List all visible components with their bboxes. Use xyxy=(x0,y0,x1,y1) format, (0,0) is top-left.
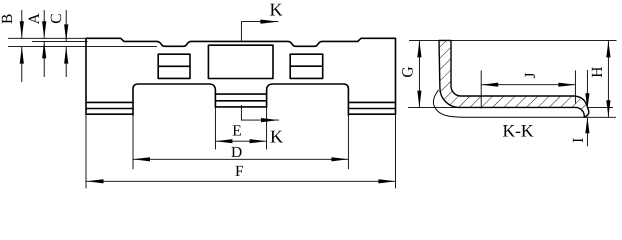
ext line across bottom of sheet xyxy=(408,107,613,109)
ext lines E (feet inner) xyxy=(215,107,266,150)
bottom ext line (foot bottom level) xyxy=(584,116,616,118)
top ext line xyxy=(409,39,617,41)
svg-text:I: I xyxy=(570,138,587,143)
ext line step y=41.4 xyxy=(32,40,88,42)
main view labels xyxy=(0,12,244,179)
C arrows xyxy=(64,24,68,41)
svg-text:G: G xyxy=(400,66,417,77)
dim J line xyxy=(481,84,575,86)
section line K top xyxy=(241,22,278,42)
arrows of main view xyxy=(20,20,396,184)
left window xyxy=(158,54,190,78)
J arrows xyxy=(481,83,498,87)
dim B line xyxy=(21,10,23,82)
ext line inner y=46.6 xyxy=(8,46,157,48)
dim F line xyxy=(87,180,396,182)
ext lines D (feet outer) xyxy=(133,115,348,169)
F arrows xyxy=(87,179,104,183)
svg-text:B: B xyxy=(0,14,16,24)
G arrows xyxy=(417,40,421,57)
right window xyxy=(290,54,323,78)
svg-text:A: A xyxy=(26,12,43,24)
right flange lines xyxy=(348,102,395,114)
center box between feet with ladder lines xyxy=(215,94,266,107)
dim G line xyxy=(418,40,420,107)
dim E line xyxy=(215,140,266,142)
D arrows xyxy=(133,157,150,161)
dim C line xyxy=(65,10,67,77)
A arrows xyxy=(42,21,46,38)
left foot xyxy=(133,84,215,115)
svg-text:K-K: K-K xyxy=(502,121,533,141)
svg-text:K: K xyxy=(270,0,283,20)
background foot outline in section xyxy=(433,90,584,117)
I arrows xyxy=(585,93,589,109)
svg-text:F: F xyxy=(235,163,244,180)
section line K bottom xyxy=(241,105,279,120)
svg-text:J: J xyxy=(522,72,539,78)
dim I line xyxy=(586,70,588,146)
dim H line xyxy=(607,40,609,117)
dim J exts xyxy=(481,70,575,108)
ext lines F (part outer) xyxy=(86,114,396,188)
hatched L-profile sheet xyxy=(439,40,589,117)
svg-text:C: C xyxy=(48,13,65,23)
dim A line xyxy=(43,10,45,77)
central window xyxy=(208,45,273,78)
K bottom arrow xyxy=(261,118,279,122)
extension + dimension thin lines of main view xyxy=(8,10,396,188)
part outline: top edge with step and two notches xyxy=(86,38,396,114)
svg-text:E: E xyxy=(232,123,241,140)
B arrows xyxy=(20,21,24,38)
svg-text:D: D xyxy=(231,144,242,161)
left flange lines xyxy=(86,102,133,114)
K top arrow xyxy=(260,20,278,24)
svg-text:H: H xyxy=(589,67,606,78)
right foot xyxy=(267,84,349,115)
section arrows xyxy=(417,40,610,133)
svg-text:K: K xyxy=(270,127,283,147)
dim D line xyxy=(133,158,348,160)
H arrows xyxy=(606,40,610,57)
ext line top surface y=38.3 xyxy=(8,37,86,39)
section thin lines xyxy=(409,40,617,146)
E arrows xyxy=(215,139,232,143)
section labels xyxy=(400,66,606,142)
